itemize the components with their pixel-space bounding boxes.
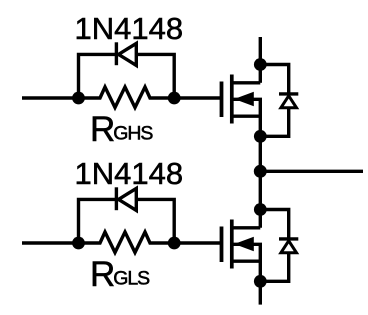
wire: Q2 body-diode branch top (260, 210, 288, 239)
MOSFET Q2: body arrow (points left) (234, 237, 254, 252)
wire: gate lead to Q2 (173, 241, 222, 244)
svg-text:1N4148: 1N4148 (75, 156, 184, 191)
node: RGHS right junction (168, 92, 181, 105)
body diode of Q2: triangle (pointing up) (281, 241, 297, 253)
diode 1N4148 high side: cathode bar (115, 42, 118, 65)
node: Q2 source junction (254, 275, 267, 288)
wire: Q2 source lead (down) (259, 281, 262, 304)
MOSFET Q1: source stub (230, 116, 260, 136)
wire: switch node output (right) (260, 170, 363, 173)
diode 1N4148 low side: triangle (anode, pointing left) (119, 188, 137, 210)
svg-text:1N4148: 1N4148 (75, 11, 184, 46)
resistor RGHS (79, 87, 175, 108)
wire: loop around RGHS (up-over-down) (79, 54, 175, 99)
svg-text:GHS: GHS (113, 123, 153, 145)
wire: Q1 body-diode branch top (260, 65, 288, 94)
MOSFET Q1: body arrow (points left) (234, 92, 254, 107)
wire: low-side input lead (left) (22, 241, 80, 244)
node: switch node junction (254, 165, 267, 178)
MOSFET Q2: source stub (230, 261, 260, 281)
node: RGHS left junction (72, 92, 85, 105)
node: RGLS right junction (168, 237, 181, 250)
diode 1N4148 high side: triangle (anode, pointing left) (119, 43, 137, 65)
MOSFET Q1 (high side): gate bar (220, 82, 224, 118)
wire: high-side input lead (left) (22, 96, 80, 99)
MOSFET Q1: drain stub (230, 81, 260, 84)
wire: Q1 drain lead (up) (259, 37, 262, 83)
svg-text:R: R (90, 255, 115, 294)
wire: Q2 body-diode branch bottom (260, 252, 288, 281)
MOSFET Q2: body stub (230, 244, 260, 262)
node: Q1 source junction (254, 130, 267, 143)
wire: loop around RGLS (up-over-down) (79, 199, 175, 244)
MOSFET Q2: channel bar (230, 220, 234, 269)
wire: Q1 body-diode branch bottom (260, 107, 288, 136)
diode 1N4148 low side: cathode bar (115, 187, 118, 210)
node: RGLS left junction (72, 237, 85, 250)
MOSFET Q1: body stub (230, 99, 260, 117)
MOSFET Q2: drain stub (230, 226, 260, 229)
body diode of Q2: cathode bar (279, 237, 298, 240)
svg-text:GLS: GLS (113, 268, 150, 290)
node: Q2 drain junction (254, 203, 267, 216)
wire: gate lead to Q1 (173, 96, 222, 99)
body diode of Q1: triangle (pointing up) (281, 96, 297, 108)
body diode of Q1: cathode bar (279, 92, 298, 95)
svg-text:R: R (90, 110, 115, 149)
MOSFET Q1: channel bar (230, 75, 234, 124)
MOSFET Q2 (low side): gate bar (220, 227, 224, 263)
node: Q1 drain junction (254, 58, 267, 71)
resistor RGLS (79, 232, 175, 253)
wire: Q1 source down to switch node, down to Q2 drain (259, 136, 262, 228)
